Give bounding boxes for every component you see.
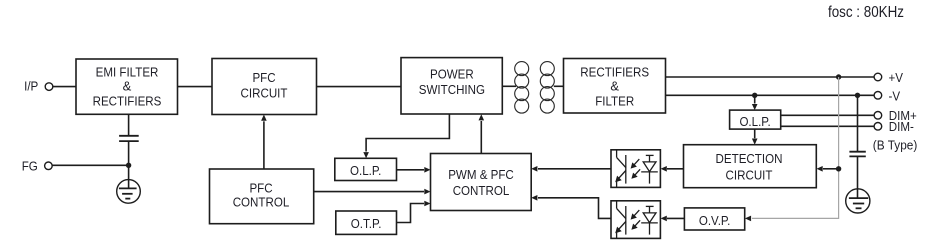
node -V junction ground tap xyxy=(855,93,860,98)
terminal +V xyxy=(874,73,882,81)
svg-text:PFC: PFC xyxy=(252,70,275,85)
svg-text:-V: -V xyxy=(889,88,901,103)
terminal I/P xyxy=(45,83,53,91)
ground symbol (input side) xyxy=(117,180,141,204)
svg-text:CIRCUIT: CIRCUIT xyxy=(726,168,773,183)
wire DIM+ rail xyxy=(781,114,875,116)
svg-text:FG: FG xyxy=(22,158,38,173)
wire O.L.P. to DETECTION CIRCUIT (arrow down) xyxy=(754,129,756,138)
wire optocoupler U2 to PWM (arrow left) xyxy=(538,198,611,219)
wire O.V.P. to optocoupler U2 (arrow left) xyxy=(667,217,684,219)
capacitor C1 xyxy=(119,135,139,137)
wire POWER SWITCHING sense to O.L.P. (arrow down) xyxy=(366,114,449,152)
wire PFC CONTROL to PFC CIRCUIT (arrow up) xyxy=(263,121,265,169)
block POWER SWITCHING xyxy=(401,58,502,114)
optocoupler U2 xyxy=(611,201,660,239)
wire transformer secondary to RECTIFIERS xyxy=(554,85,564,87)
terminal -V xyxy=(874,92,882,100)
wire -V tap to O.L.P. (arrow down) xyxy=(754,95,756,103)
wire O.L.P. to PWM (arrow right) xyxy=(397,169,425,171)
wire junction to DETECTION CIRCUIT (arrow left) xyxy=(823,168,839,170)
svg-text:EMI FILTER: EMI FILTER xyxy=(96,64,159,79)
svg-text:SWITCHING: SWITCHING xyxy=(419,82,485,97)
wire PWM to POWER SWITCHING (arrow up) xyxy=(480,121,482,154)
optocoupler U1 xyxy=(611,150,660,188)
svg-text:RECTIFIERS: RECTIFIERS xyxy=(93,93,162,108)
terminal FG xyxy=(45,162,53,170)
node -V junction OLP tap xyxy=(752,93,757,98)
wire DIM- rail xyxy=(781,125,875,127)
wire optocoupler U1 to PWM (arrow left) xyxy=(538,168,611,170)
svg-text:CONTROL: CONTROL xyxy=(453,183,510,198)
wire +V sense line (grey) xyxy=(752,77,839,218)
ground symbol (output side) xyxy=(846,189,870,213)
wire C1 to input ground xyxy=(128,141,130,188)
wire FG to junction xyxy=(52,164,128,166)
capacitor C2 xyxy=(849,151,865,153)
block DETECTION CIRCUIT xyxy=(684,145,817,188)
svg-text:PWM & PFC: PWM & PFC xyxy=(448,167,514,182)
wire EMI block to capacitor C1 xyxy=(128,114,130,136)
svg-text:CIRCUIT: CIRCUIT xyxy=(241,86,288,101)
svg-text:+V: +V xyxy=(889,70,904,85)
svg-text:O.V.P.: O.V.P. xyxy=(699,213,731,228)
node FG junction xyxy=(126,163,131,168)
svg-text:POWER: POWER xyxy=(430,66,474,81)
svg-text:CONTROL: CONTROL xyxy=(233,195,290,210)
terminal DIM- xyxy=(874,123,882,131)
wire PFC CONTROL to PWM (arrow right) xyxy=(314,191,424,193)
wire EMI to PFC CIRCUIT xyxy=(178,86,213,88)
wire -V tap to capacitor C2 xyxy=(857,95,859,151)
svg-text:RECTIFIERS: RECTIFIERS xyxy=(580,64,649,79)
block O.T.P. xyxy=(336,211,397,234)
block O.L.P. input side xyxy=(335,158,397,180)
svg-text:PFC: PFC xyxy=(249,180,272,195)
arrow into O.V.P. right edge xyxy=(745,216,751,222)
transformer T1 secondary winding xyxy=(540,62,554,114)
svg-text:&: & xyxy=(610,79,619,94)
block RECTIFIERS & FILTER xyxy=(564,59,666,114)
terminal DIM+ xyxy=(874,112,882,120)
wire +V rail xyxy=(666,76,875,78)
node detection junction xyxy=(836,166,841,171)
block PFC CONTROL xyxy=(210,169,314,224)
block PWM & PFC CONTROL xyxy=(431,154,532,211)
svg-text:FILTER: FILTER xyxy=(595,93,634,108)
block O.V.P. xyxy=(684,208,744,230)
svg-text:&: & xyxy=(123,79,132,94)
transformer T1 primary winding xyxy=(515,62,529,114)
svg-text:O.L.P.: O.L.P. xyxy=(739,114,770,129)
node +V junction xyxy=(836,74,841,79)
svg-text:DETECTION: DETECTION xyxy=(716,151,783,166)
wire O.T.P. to PWM (arrow right) xyxy=(397,204,425,223)
wire POWER SWITCHING to transformer primary xyxy=(502,85,516,87)
wire -V rail xyxy=(666,94,875,96)
svg-text:I/P: I/P xyxy=(24,78,38,93)
block PFC CIRCUIT xyxy=(212,59,317,115)
svg-text:O.T.P.: O.T.P. xyxy=(351,216,382,231)
svg-text:O.L.P.: O.L.P. xyxy=(350,163,381,178)
wire C2 to output ground xyxy=(857,156,859,198)
svg-text:DIM-: DIM- xyxy=(889,119,914,134)
block O.L.P. output side xyxy=(730,110,781,129)
svg-text:fosc : 80KHz: fosc : 80KHz xyxy=(828,4,904,21)
wire PFC CIRCUIT to POWER SWITCHING xyxy=(317,86,402,88)
wire DETECTION CIRCUIT to optocoupler U1 (arrow left) xyxy=(667,168,684,170)
wire I/P to EMI block xyxy=(53,86,76,88)
svg-text:(B Type): (B Type) xyxy=(873,138,918,153)
block EMI FILTER & RECTIFIERS xyxy=(76,59,178,114)
